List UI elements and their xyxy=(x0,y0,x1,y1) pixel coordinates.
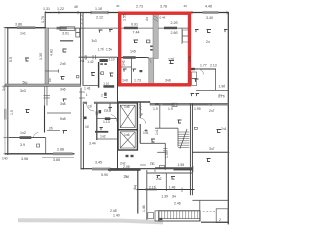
red room label 3ч right xyxy=(172,194,176,199)
svg-text:3ч6: 3ч6 xyxy=(60,88,66,92)
svg-text:2б: 2б xyxy=(95,111,99,115)
window bar on y169 wall xyxy=(92,168,110,171)
svg-text:ПЗ: ПЗ xyxy=(104,109,109,113)
svg-text:4щ: 4щ xyxy=(133,185,137,190)
svg-text:1.9: 1.9 xyxy=(153,107,158,111)
svg-text:2.0б: 2.0б xyxy=(123,165,130,169)
svg-text:4б: 4б xyxy=(184,4,188,8)
svg-text:3ч: 3ч xyxy=(172,194,176,199)
svg-text:1.39: 1.39 xyxy=(161,194,168,198)
door arc right apt xyxy=(198,69,204,75)
fixture red apt living xyxy=(169,61,174,64)
vertical x=146.8 lower left wall xyxy=(146,170,148,220)
toilet in bathroom xyxy=(110,73,114,76)
svg-text:1ч0: 1ч0 xyxy=(122,79,128,83)
fixture red apt bath sink xyxy=(133,69,137,72)
tick breaks on band xyxy=(44,96,51,99)
window on top wall left apartment xyxy=(92,11,109,14)
svg-text:1ч2: 1ч2 xyxy=(20,131,26,135)
svg-text:1.55: 1.55 xyxy=(178,163,185,167)
svg-text:3.98: 3.98 xyxy=(21,157,28,161)
wall y=167.5 x155-193 xyxy=(155,167,193,169)
bathroom wall y=118.5 xyxy=(97,118,118,120)
svg-text:3.40: 3.40 xyxy=(206,16,213,20)
svg-text:1б: 1б xyxy=(88,105,92,109)
marks on gray band xyxy=(150,46,153,51)
landing box left of bottom stairs xyxy=(155,211,159,221)
svg-text:ПБ: ПБ xyxy=(150,162,155,166)
svg-text:1.55: 1.55 xyxy=(165,151,169,158)
wall y=90.4 right apt xyxy=(196,89,228,91)
dashes lower right xyxy=(203,210,216,212)
svg-text:1.3б: 1.3б xyxy=(39,53,43,60)
red apartment gray structural wall upper xyxy=(153,14,158,59)
gray structural wall x=45-48.5 xyxy=(45,28,49,87)
sink fixture above wall xyxy=(61,77,65,80)
svg-text:1ч6: 1ч6 xyxy=(124,105,130,109)
loggia top labels xyxy=(116,4,187,20)
svg-text:2.2б: 2.2б xyxy=(171,21,178,25)
svg-text:1.9б: 1.9б xyxy=(219,85,226,89)
small box below corridor wall xyxy=(172,103,177,106)
left outer wall double line xyxy=(5,27,8,155)
fixture toilet lower left xyxy=(26,110,30,113)
bathroom cluster vertical x=96.8 xyxy=(96,104,98,141)
red apt interior wall y=57.5 xyxy=(121,57,149,59)
thin double wall continuation below xyxy=(45,87,47,106)
svg-text:2чб: 2чб xyxy=(60,62,66,66)
wall right of elevators xyxy=(140,102,146,143)
fixture top right apt lower xyxy=(195,79,199,82)
bottom staircase box xyxy=(159,211,200,221)
svg-text:1ч5: 1ч5 xyxy=(130,50,136,54)
window on top-left wall xyxy=(17,26,36,29)
svg-text:2.12: 2.12 xyxy=(96,16,103,20)
fixture top right apt toilets xyxy=(195,30,227,33)
fixture red apt bath toilet xyxy=(123,69,127,72)
svg-text:3.01: 3.01 xyxy=(62,32,69,36)
svg-text:1ч6: 1ч6 xyxy=(124,133,130,137)
window bar on bottom wall xyxy=(53,152,73,155)
svg-text:5.5: 5.5 xyxy=(9,57,13,62)
svg-text:1ч1: 1ч1 xyxy=(20,32,26,36)
step wall at x=45 xyxy=(44,12,46,28)
red apt bath divider vertical xyxy=(131,58,133,86)
dark bar above bathroom xyxy=(100,59,108,62)
red apartment gray structural wall lower jog xyxy=(149,58,154,86)
small fixture below bathroom xyxy=(104,93,107,98)
svg-text:2.13: 2.13 xyxy=(210,64,217,68)
svg-text:4б: 4б xyxy=(74,5,78,9)
corridor top wall mid section xyxy=(118,101,151,102)
right mid room wall x=160 xyxy=(159,105,161,128)
fixtures above corridor right xyxy=(191,94,200,97)
bottom-left apt interior wall y=113 xyxy=(47,112,71,114)
bottom sidewalk gray band xyxy=(18,218,163,224)
svg-text:2ч2: 2ч2 xyxy=(156,177,162,181)
small box in bathroom xyxy=(101,72,104,75)
svg-text:1.55: 1.55 xyxy=(123,14,127,21)
svg-text:4.4б: 4.4б xyxy=(205,5,212,9)
svg-text:0.91: 0.91 xyxy=(131,22,138,26)
terrace line xyxy=(42,157,74,159)
stub wall y=71 right of gray band xyxy=(46,69,60,73)
hatched wall segment red apt right loggia xyxy=(164,27,177,30)
top right apartment wall y=69 xyxy=(189,68,216,70)
svg-text:1.46: 1.46 xyxy=(142,205,146,212)
red apt door arc xyxy=(146,58,152,64)
staircase upper flight xyxy=(178,129,189,149)
svg-text:2ч: 2ч xyxy=(206,40,210,44)
svg-text:7.44: 7.44 xyxy=(133,30,140,34)
labels bathroom zone xyxy=(80,39,115,86)
rotated dimension texts xyxy=(9,14,192,212)
outer top wall right part xyxy=(45,12,229,14)
small closet wall y=130.4 xyxy=(47,129,60,131)
svg-text:1.77: 1.77 xyxy=(200,64,207,68)
svg-text:2.4б: 2.4б xyxy=(110,209,117,213)
svg-text:3ч7: 3ч7 xyxy=(209,147,215,151)
svg-text:2.73: 2.73 xyxy=(136,5,143,9)
svg-text:1.13: 1.13 xyxy=(103,120,110,124)
svg-text:3ч3: 3ч3 xyxy=(92,39,97,43)
svg-text:2.6б: 2.6б xyxy=(171,31,178,35)
svg-text:1.73: 1.73 xyxy=(134,79,141,83)
small step wall right of window wall xyxy=(45,138,47,154)
small marks below bar xyxy=(100,63,107,65)
svg-text:2ч: 2ч xyxy=(219,94,223,98)
fixture room 2.12 small xyxy=(109,30,113,33)
corridor left wall x=117.5 xyxy=(117,57,119,170)
corridor door gap arc left xyxy=(87,104,95,112)
box bottom right xyxy=(216,209,228,223)
wall y=143.3 left of stair xyxy=(140,142,165,144)
fixture sink mid room xyxy=(63,49,67,52)
svg-text:1.70: 1.70 xyxy=(41,16,45,23)
red highlight rectangle xyxy=(120,13,190,85)
toilet left of bathroom xyxy=(91,73,95,76)
svg-text:5.90: 5.90 xyxy=(101,173,108,177)
svg-text:4б: 4б xyxy=(116,4,120,8)
step vertical wall x=82 lower xyxy=(81,88,83,170)
fixture bathroom cluster xyxy=(84,108,112,131)
svg-text:1.22: 1.22 xyxy=(57,7,64,11)
dimension label texts xyxy=(2,5,227,223)
small fixture box xyxy=(37,144,40,147)
window in left wall xyxy=(4,109,8,120)
svg-text:2б: 2б xyxy=(49,127,53,131)
wall y=173 lower pair xyxy=(147,172,193,174)
svg-text:2.1б: 2.1б xyxy=(149,186,156,190)
outer top-left wall xyxy=(5,27,46,29)
svg-text:1.10: 1.10 xyxy=(108,57,114,61)
svg-text:1.40: 1.40 xyxy=(113,214,120,218)
svg-text:1б: 1б xyxy=(85,125,89,129)
corridor top wall right section xyxy=(150,103,229,105)
vertical x=165.3 xyxy=(163,143,167,170)
vertical x=199 bottom right xyxy=(199,200,201,221)
svg-text:4.81: 4.81 xyxy=(50,49,54,56)
fixture basket right xyxy=(217,130,222,133)
bathroom box left wall xyxy=(98,62,100,88)
vent shaft boxes beside red right edge xyxy=(192,72,197,86)
dark entrance wall segment xyxy=(174,168,194,170)
mark right of sink xyxy=(77,76,79,78)
level mark +5 xyxy=(145,129,148,132)
svg-text:1ч: 1ч xyxy=(48,78,52,82)
fixture room right mid sink xyxy=(178,120,182,123)
closet boxes top of left apartment xyxy=(60,14,83,41)
dimension tick marks on walls xyxy=(4,11,230,172)
svg-text:3.86: 3.86 xyxy=(15,23,22,27)
fixtures: toilet left apt xyxy=(25,58,29,61)
bottom-left apt window wall y=137.6 xyxy=(9,137,46,139)
svg-text:1ч0: 1ч0 xyxy=(2,157,8,161)
svg-text:2: 2 xyxy=(219,218,221,222)
dark mark ЧП in red apt hall xyxy=(140,70,143,72)
svg-text:1.5ч: 1.5ч xyxy=(106,48,112,52)
fixture red apt small xyxy=(147,40,150,43)
bathroom wall y=131.8 thick xyxy=(95,131,108,133)
small box above wall xyxy=(160,165,165,168)
wall y=128.2 xyxy=(155,127,178,129)
toilet fixture right lower room xyxy=(207,159,211,162)
dark hatch on y69 wall xyxy=(189,68,195,70)
bathroom bottom dark bar xyxy=(103,85,114,88)
thick gray wall under left apartment y=84-86.5 xyxy=(5,84,81,87)
fixture lower right room xyxy=(157,176,161,179)
svg-text:2.88: 2.88 xyxy=(57,148,64,152)
svg-text:3м: 3м xyxy=(124,174,129,179)
svg-text:5ш: 5ш xyxy=(23,81,28,85)
wall stub y=152.3 left xyxy=(157,151,165,153)
svg-text:1.10: 1.10 xyxy=(103,82,109,86)
bottom-left apartment vertical wall x=44.5 xyxy=(44,106,46,133)
svg-text:3.78: 3.78 xyxy=(160,5,167,9)
wall y=190.8 xyxy=(137,188,195,193)
corridor bottom wall y=170.8 dark thick xyxy=(108,169,141,171)
lobby intercom marks xyxy=(126,155,134,157)
corridor wall x=110 with door xyxy=(110,104,117,122)
wall y=152.3 right section xyxy=(193,151,229,153)
svg-text:1.48: 1.48 xyxy=(169,186,176,190)
vertical x=137.8 lower xyxy=(137,170,139,214)
svg-text:17б: 17б xyxy=(168,58,174,62)
svg-text:1ч1: 1ч1 xyxy=(155,129,159,135)
interior wall y=28 across upper apartments xyxy=(8,27,190,29)
red apt small wall y=67 xyxy=(121,66,132,68)
svg-text:0.4б: 0.4б xyxy=(160,16,166,20)
svg-text:2ч0: 2ч0 xyxy=(188,56,192,62)
window segment on that wall xyxy=(123,56,136,59)
dark segment corridor wall left xyxy=(155,103,159,105)
svg-text:2.46: 2.46 xyxy=(174,202,181,206)
svg-text:1.99: 1.99 xyxy=(194,107,201,111)
svg-text:1.41: 1.41 xyxy=(84,87,91,91)
small box near bottom xyxy=(148,213,154,219)
gray window bars on corridor right wall xyxy=(163,103,209,105)
svg-text:1: 1 xyxy=(86,93,88,97)
svg-text:1.9: 1.9 xyxy=(168,107,173,111)
svg-text:3.44: 3.44 xyxy=(89,142,96,146)
fixture bath lower mid xyxy=(63,131,68,134)
hatch on gray wall top xyxy=(153,16,158,22)
svg-text:3ч6: 3ч6 xyxy=(165,79,171,83)
dark vent seg on it xyxy=(105,117,111,120)
svg-text:3ч8: 3ч8 xyxy=(60,102,66,106)
fixture sink lower mid xyxy=(63,99,67,102)
red room label 3m lower corridor xyxy=(124,174,129,179)
window bar on it xyxy=(20,136,32,139)
hatched wall segment red apt left loggia xyxy=(124,27,138,30)
fixture left apartment top room xyxy=(99,30,103,33)
svg-text:2ч1: 2ч1 xyxy=(221,127,227,131)
wall y=57.2 upper left apt xyxy=(79,55,118,59)
thin wall y=85.4 xyxy=(83,84,98,86)
svg-text:1ч1: 1ч1 xyxy=(143,131,149,135)
hatch marks right of elevator xyxy=(139,105,142,110)
right outer wall xyxy=(227,12,229,224)
radiator mark right of stair wall xyxy=(194,127,197,129)
vertical wall x=81 double xyxy=(81,12,83,86)
svg-text:4.8: 4.8 xyxy=(84,55,88,60)
vertical wall x=182 top right of red apt xyxy=(182,28,189,44)
svg-text:P: P xyxy=(141,113,143,117)
stair well left wall x=178 xyxy=(177,128,179,146)
vertical wall x=215.5 xyxy=(215,69,217,91)
door arc at window wall xyxy=(34,133,39,138)
bathroom wall y=139 xyxy=(97,138,118,140)
svg-text:1ч1: 1ч1 xyxy=(122,60,126,66)
bottom wall left y=154 xyxy=(5,153,75,155)
svg-text:3x3: 3x3 xyxy=(20,89,26,93)
svg-text:5ч8: 5ч8 xyxy=(60,117,66,121)
elevator shaft 1 xyxy=(118,103,137,130)
hatched wall segment left xyxy=(57,27,67,30)
elevator shaft 2 xyxy=(118,130,137,150)
corridor top wall left section xyxy=(83,102,118,104)
svg-text:1.5: 1.5 xyxy=(10,110,14,115)
svg-text:1.31: 1.31 xyxy=(43,7,50,11)
svg-text:2ч7: 2ч7 xyxy=(209,109,215,113)
stairwell right wall x=190.3 xyxy=(190,104,192,196)
svg-text:3.45: 3.45 xyxy=(95,161,102,165)
bottom wall right xyxy=(201,221,229,223)
svg-text:1.7б: 1.7б xyxy=(98,48,104,52)
bottom wall y=169 mid xyxy=(81,168,193,170)
sink fixture left of stairs xyxy=(151,139,155,142)
svg-text:3.9: 3.9 xyxy=(20,143,25,147)
fixture red apt kitchen xyxy=(134,40,139,43)
fixture lower room sink xyxy=(171,177,175,180)
svg-text:4ч: 4ч xyxy=(145,17,149,21)
svg-text:2: 2 xyxy=(101,94,103,98)
svg-text:1ч2: 1ч2 xyxy=(100,135,106,139)
svg-text:1.42: 1.42 xyxy=(87,60,93,64)
room divider x=166.3 lower xyxy=(165,173,167,191)
svg-text:1.1б: 1.1б xyxy=(95,7,102,11)
right column lower walls xyxy=(192,199,228,201)
svg-text:3.85: 3.85 xyxy=(53,158,60,162)
window on top wall right apartment xyxy=(203,11,219,14)
